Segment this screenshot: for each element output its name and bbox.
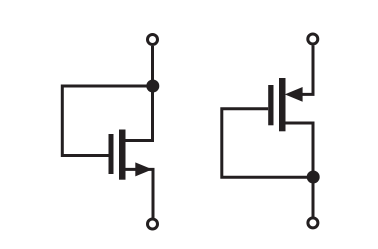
terminal (top, right device) [308,34,318,44]
node: gate-drain junction dot (right device) [307,171,320,184]
wire: drain lead (left device) [124,139,154,142]
terminal (top, left device) [148,35,158,45]
transistor Q2 source arrow (p-channel, pointing in) [285,87,303,102]
transistor Q1 gate bar [109,134,114,174]
wire: gate feedback loop (right device) [222,109,314,178]
node: gate-drain junction dot (left device) [146,80,159,93]
transistor Q1 channel bar [119,130,126,180]
terminal (bottom, left device) [148,219,158,229]
wire: drain lead (right device) [286,123,314,177]
transistor Q1 source arrow (n-channel, pointing out) [135,162,152,176]
wire: gate feedback loop (left device) [62,86,153,156]
wire: top terminal to source lead (right device) [300,46,313,95]
transistor Q2 gate bar [268,85,273,125]
transistor Q2 channel bar [279,78,286,131]
wire: source lead to bottom terminal (left device) [125,169,153,218]
terminal (bottom, right device) [308,218,318,228]
wire: top terminal to drain node (left device) [151,46,154,141]
wire: junction to bottom terminal (right device) [312,177,315,217]
